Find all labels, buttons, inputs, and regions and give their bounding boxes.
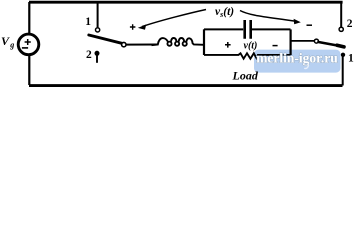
svg-text:2: 2 (347, 18, 353, 30)
svg-text:1: 1 (85, 16, 91, 28)
svg-text:1: 1 (348, 53, 354, 65)
svg-text:merlin-igor.ru: merlin-igor.ru (256, 51, 338, 66)
svg-text:g: g (9, 41, 14, 50)
svg-text:V: V (1, 34, 10, 48)
svg-text:vs(t): vs(t) (215, 6, 234, 19)
svg-text:2: 2 (86, 49, 92, 61)
svg-text:Load: Load (232, 69, 259, 83)
